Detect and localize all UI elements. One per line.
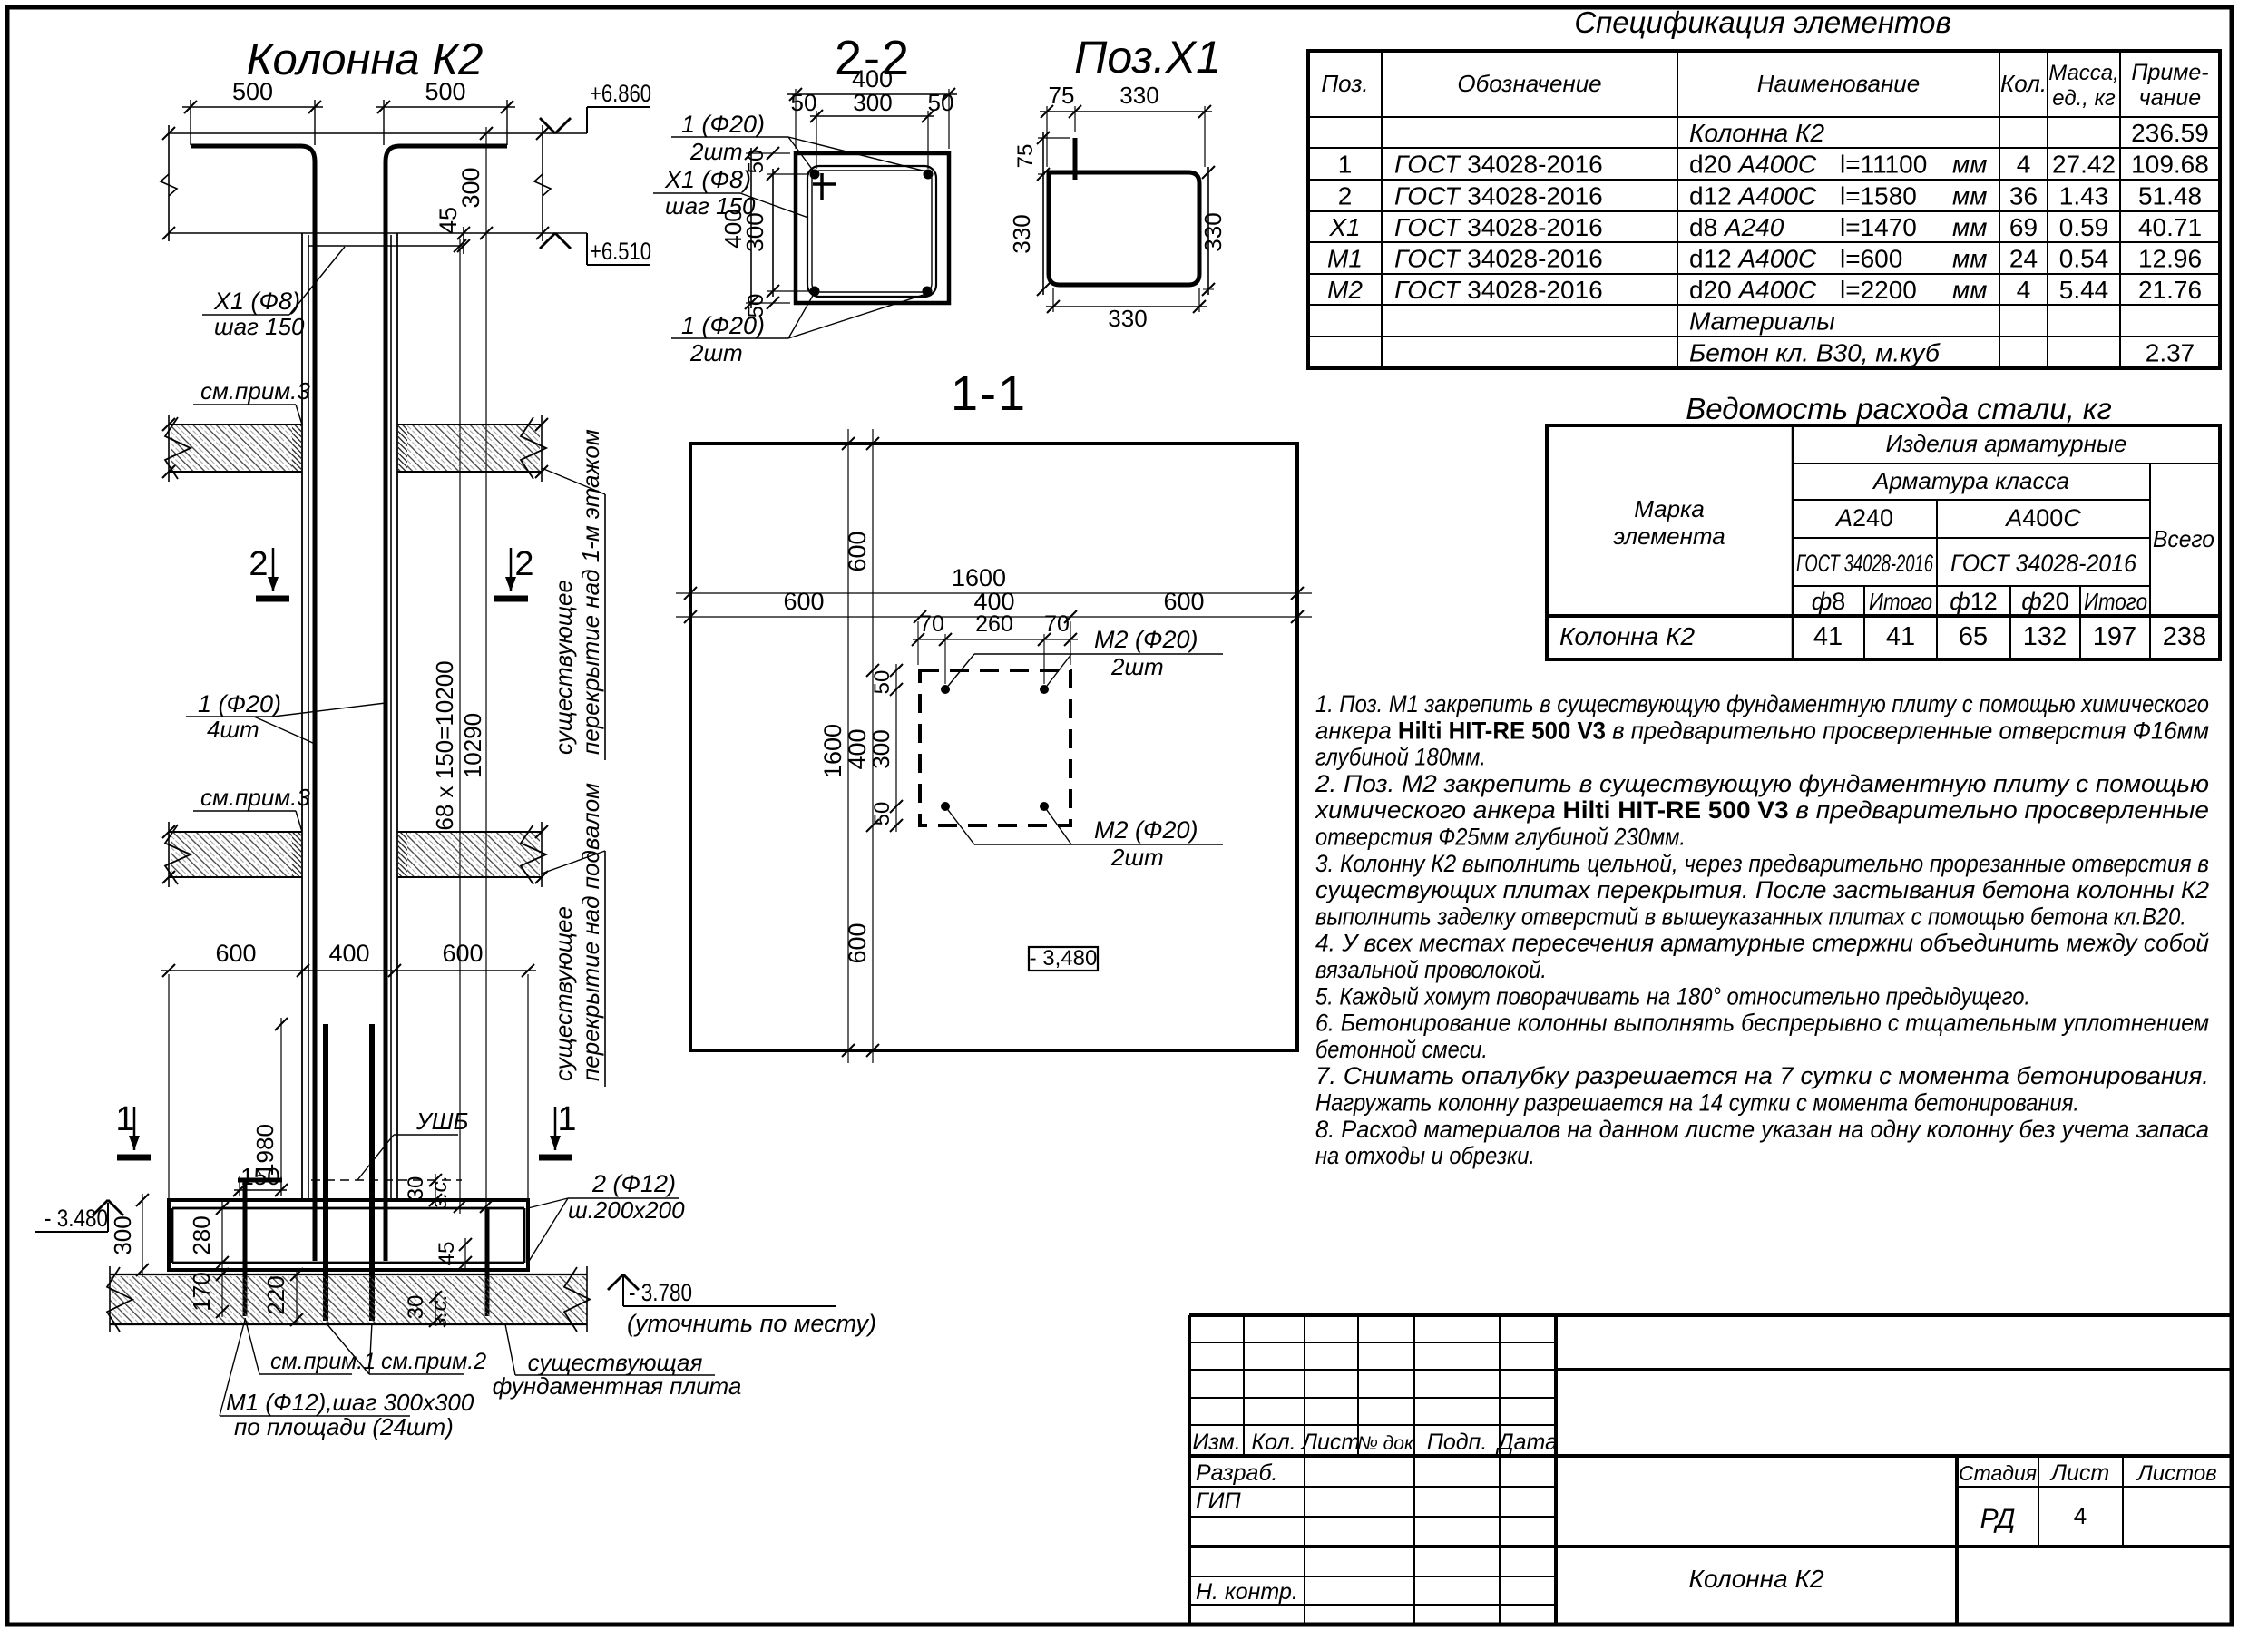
svg-text:бетонной смеси.: бетонной смеси. — [1315, 1036, 1488, 1063]
svg-text:анкера Hilti HIT-RE 500 V3 в п: анкера Hilti HIT-RE 500 V3 в предварител… — [1315, 717, 2209, 744]
svg-text:глубиной 180мм.: глубиной 180мм. — [1315, 744, 1486, 771]
svg-text:химического анкера Hilti HIT-R: химического анкера Hilti HIT-RE 500 V3 в… — [1314, 796, 2209, 824]
svg-text:8. Расход материалов на данном: 8. Расход материалов на данном листе ука… — [1315, 1116, 2209, 1143]
svg-text:3. Колонну К2 выполнить цельно: 3. Колонну К2 выполнить цельной, через п… — [1315, 850, 2209, 877]
svg-text:на отходы и обрезки.: на отходы и обрезки. — [1315, 1142, 1535, 1169]
svg-text:вязальной проволокой.: вязальной проволокой. — [1315, 956, 1547, 983]
svg-text:выполнить заделку отверстий в: выполнить заделку отверстий в вышеуказан… — [1315, 903, 2186, 930]
svg-text:отверстия Ф25мм глубиной 230мм: отверстия Ф25мм глубиной 230мм. — [1315, 824, 1686, 851]
svg-text:5. Каждый хомут поворачивать н: 5. Каждый хомут поворачивать на 180° отн… — [1315, 982, 2030, 1010]
svg-text:6. Бетонирование колонны выпол: 6. Бетонирование колонны выполнять беспр… — [1315, 1010, 2209, 1037]
svg-text:2. Поз. М2 закрепить в существ: 2. Поз. М2 закрепить в существующую фунд… — [1315, 770, 2209, 797]
svg-text:существующих плитах перекрытия: существующих плитах перекрытия. После за… — [1315, 876, 2209, 903]
svg-text:4. У всех местах пересечения а: 4. У всех местах пересечения арматурные … — [1315, 930, 2209, 957]
svg-text:7. Снимать опалубку разрешаетс: 7. Снимать опалубку разрешается на 7 сут… — [1315, 1062, 2209, 1089]
svg-text:1. Поз. М1 закрепить в существ: 1. Поз. М1 закрепить в существующую фунд… — [1315, 690, 2209, 717]
svg-text:Нагружать колонну разрешается: Нагружать колонну разрешается на 14 сутк… — [1315, 1089, 2079, 1117]
